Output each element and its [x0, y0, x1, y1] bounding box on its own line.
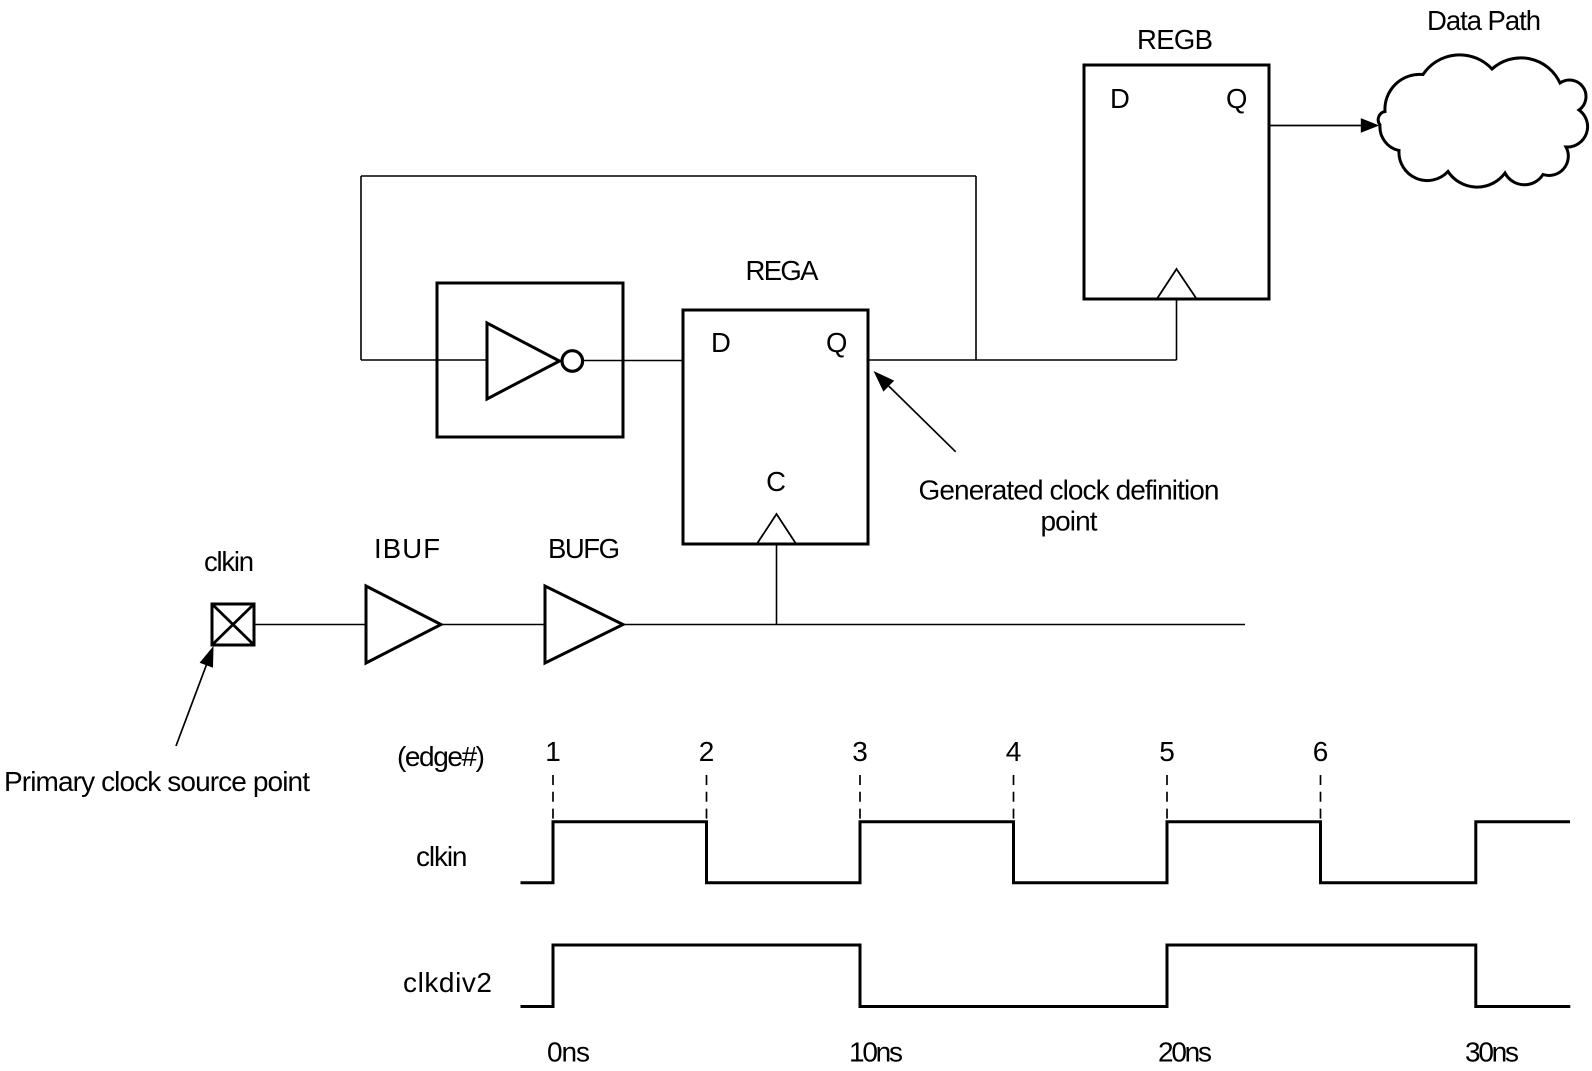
wire feedback top horizontal: [361, 175, 976, 177]
wire REGA clock vertical: [776, 544, 778, 625]
svg-text:IBUF: IBUF: [374, 533, 440, 564]
svg-text:0ns: 0ns: [547, 1037, 590, 1068]
wire feedback into inverter input: [361, 359, 487, 361]
edge marker dashed line 6: [1320, 775, 1322, 820]
svg-text:10ns: 10ns: [849, 1037, 903, 1068]
clkdiv2 waveform: [521, 945, 1571, 1007]
svg-text:1: 1: [545, 736, 561, 767]
svg-text:Q: Q: [826, 327, 847, 358]
REGA clock edge triangle: [757, 514, 796, 544]
data path cloud: [1378, 55, 1587, 187]
register REGA box: [683, 310, 868, 544]
inverter U1 bubble: [562, 351, 583, 372]
wire clkin to IBUF: [254, 624, 366, 626]
wire inverter output to REGA.D: [584, 360, 683, 362]
buffer BUFG triangle: [545, 586, 623, 663]
svg-text:3: 3: [852, 736, 868, 767]
svg-text:clkdiv2: clkdiv2: [403, 967, 492, 998]
wire REGA.Q output to REGB clock branch: [868, 359, 1177, 361]
svg-text:C: C: [766, 466, 786, 497]
edge marker dashed line 5: [1166, 775, 1168, 820]
buffer IBUF triangle: [366, 586, 441, 663]
svg-text:2: 2: [699, 736, 715, 767]
inverter U1 triangle: [487, 323, 560, 399]
annotation arrow to primary clock source point: [176, 665, 206, 746]
wire clock net BUFG to right: [623, 624, 1245, 626]
REGB clock edge triangle: [1157, 269, 1197, 299]
svg-text:(edge#): (edge#): [397, 741, 485, 772]
svg-text:Primary clock source point: Primary clock source point: [4, 766, 310, 797]
svg-text:5: 5: [1159, 736, 1175, 767]
wire feedback left vertical: [360, 176, 362, 360]
svg-text:30ns: 30ns: [1465, 1037, 1519, 1068]
svg-text:clkin: clkin: [416, 841, 468, 872]
svg-text:point: point: [1041, 506, 1098, 537]
svg-text:REGA: REGA: [746, 255, 820, 286]
annotation arrow to generated clock definition point: [889, 386, 956, 452]
wire REGB clock vertical: [1176, 299, 1178, 360]
svg-text:D: D: [711, 327, 731, 358]
register REGB box: [1084, 65, 1269, 299]
svg-text:6: 6: [1313, 736, 1329, 767]
edge marker dashed line 3: [859, 775, 861, 820]
clkin waveform: [521, 822, 1571, 883]
clkin source point (crossed box): [212, 604, 254, 645]
edge marker dashed line 2: [706, 775, 708, 820]
svg-text:Data Path: Data Path: [1427, 5, 1541, 36]
svg-text:BUFG: BUFG: [548, 533, 620, 564]
svg-text:clkin: clkin: [204, 546, 254, 577]
edge marker dashed line 1: [552, 775, 554, 820]
svg-text:4: 4: [1006, 736, 1022, 767]
svg-text:Generated clock definition: Generated clock definition: [919, 475, 1220, 506]
svg-text:Q: Q: [1226, 83, 1247, 114]
wire REGB.Q to data path cloud with arrowhead: [1269, 125, 1363, 127]
wire feedback right vertical: [975, 176, 977, 360]
svg-text:D: D: [1110, 83, 1130, 114]
svg-text:REGB: REGB: [1137, 24, 1213, 55]
svg-text:20ns: 20ns: [1158, 1037, 1212, 1068]
inverter U1 enclosure box: [437, 283, 623, 437]
wire IBUF to BUFG: [441, 624, 545, 626]
edge marker dashed line 4: [1013, 775, 1015, 820]
